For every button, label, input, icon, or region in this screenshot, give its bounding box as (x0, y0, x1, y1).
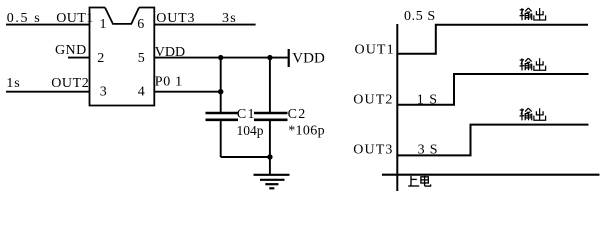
IC U1 notch mark (105, 8, 139, 24)
svg-text:2: 2 (97, 51, 104, 66)
wire pin5 VDD (154, 57, 288, 59)
svg-text:GND: GND (55, 43, 87, 58)
wire C1 bottom vertical (220, 120, 222, 157)
waveform OUT2 (397, 74, 588, 105)
svg-text:3: 3 (100, 85, 107, 100)
svg-text:5: 5 (138, 51, 145, 66)
VDD power symbol bar (288, 49, 290, 67)
wire pin4 P01 (154, 91, 220, 93)
ground symbol (254, 175, 290, 189)
svg-text:OUT2: OUT2 (51, 76, 89, 91)
svg-text:104p: 104p (237, 123, 264, 138)
wire C2 top vertical (269, 58, 271, 113)
svg-text:0.5 S: 0.5 S (404, 9, 436, 24)
svg-text:P0 1: P0 1 (155, 75, 183, 90)
label shuchu 2 (output) (520, 58, 546, 70)
svg-text:C2: C2 (288, 107, 307, 122)
label shuchu 3 (output) (520, 108, 546, 120)
svg-text:OUT1: OUT1 (56, 11, 94, 26)
svg-text:VDD: VDD (155, 45, 185, 60)
svg-text:OUT3: OUT3 (156, 11, 195, 26)
wire bottom C1 to C2 (221, 156, 270, 158)
svg-text:0.5 s: 0.5 s (7, 11, 41, 26)
label shuchu 1 (output) (520, 8, 546, 20)
svg-text:3 S: 3 S (418, 143, 439, 158)
junction dot VDD-C2 (267, 55, 272, 60)
wire pin6 OUT3 (154, 24, 255, 26)
svg-text:1s: 1s (6, 76, 20, 91)
svg-text:OUT2: OUT2 (353, 92, 393, 107)
capacitor C1 (206, 113, 239, 120)
svg-text:C1: C1 (237, 107, 256, 122)
IC U1 body (90, 8, 155, 106)
svg-text:6: 6 (137, 17, 144, 32)
junction dot bottom (267, 154, 272, 159)
label shangdian (power-on) (408, 176, 430, 186)
waveform OUT1 (397, 25, 588, 54)
svg-text:VDD: VDD (292, 51, 325, 67)
svg-text:1 S: 1 S (417, 92, 438, 107)
junction dot P01-C1 (218, 89, 223, 94)
timing axis horizontal (382, 174, 600, 176)
wire C1 top vertical (220, 58, 222, 113)
svg-text:OUT3: OUT3 (353, 143, 393, 158)
junction dot VDD-C1 (218, 55, 223, 60)
svg-text:3s: 3s (222, 11, 237, 26)
wire pin1 OUT1 (6, 24, 90, 26)
waveform OUT3 (397, 125, 588, 156)
wire C2 to ground (269, 120, 271, 174)
svg-text:4: 4 (138, 85, 145, 100)
wire pin3 OUT2 (6, 91, 90, 93)
svg-text:OUT1: OUT1 (355, 42, 395, 57)
capacitor C2 (254, 113, 288, 120)
svg-text:*106p: *106p (288, 124, 325, 139)
svg-text:1: 1 (100, 17, 107, 32)
wire pin2 GND stub (68, 57, 90, 59)
timing axis vertical (396, 24, 398, 191)
